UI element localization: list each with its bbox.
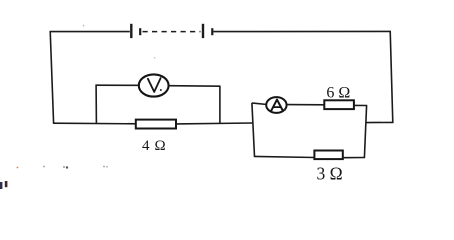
- scan mark bottom-left corner: [0, 181, 7, 189]
- wire block top-left: [252, 103, 267, 105]
- voltmeter loop left vertical: [95, 85, 97, 123]
- ammeter U2: [266, 97, 286, 113]
- battery plate short right: [211, 28, 213, 35]
- parallel block right vertical: [364, 106, 366, 158]
- voltmeter U1: [139, 74, 169, 96]
- wire main bottom right: [176, 122, 253, 125]
- wire R2 to block right: [354, 104, 367, 106]
- battery plate long left: [130, 24, 132, 38]
- wire outer right vertical: [390, 31, 393, 123]
- wire main bottom left: [53, 122, 137, 125]
- battery B1: [131, 24, 212, 38]
- resistor R1 4ohm: [136, 120, 176, 129]
- resistor R2 6ohm: [324, 100, 354, 109]
- battery dashed link: [143, 31, 201, 33]
- ammeter dot: [284, 109, 286, 111]
- resistor R3 3ohm: [314, 151, 342, 160]
- wire outer right elbow to parallel block: [366, 121, 393, 123]
- scan speck mid: [154, 57, 156, 59]
- voltmeter loop right vertical: [219, 86, 221, 124]
- svg-text:3 Ω: 3 Ω: [317, 164, 343, 184]
- wire top-left segment: [50, 31, 130, 33]
- wire top-right segment: [214, 30, 391, 32]
- voltmeter letter V: [148, 78, 161, 92]
- wire block bottom-right: [343, 157, 365, 159]
- battery plate long right: [202, 24, 204, 38]
- scan speck row: [17, 166, 108, 169]
- voltmeter dot: [160, 89, 162, 91]
- scan speck top: [83, 25, 85, 27]
- wire outer left vertical: [50, 31, 53, 123]
- voltmeter loop top-left wire: [95, 84, 139, 86]
- svg-text:4 Ω: 4 Ω: [142, 138, 166, 154]
- wire ammeter to R2: [287, 104, 325, 106]
- wire block bottom-left: [254, 156, 315, 157]
- battery plate short left: [139, 28, 141, 35]
- voltmeter loop top-right wire: [169, 85, 221, 88]
- ammeter letter A: [271, 100, 283, 111]
- parallel block left vertical: [252, 103, 255, 157]
- svg-text:6 Ω: 6 Ω: [326, 84, 350, 101]
